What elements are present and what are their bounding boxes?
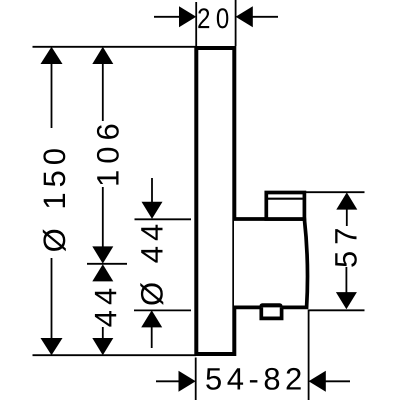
dim 20 arrow left xyxy=(179,6,196,27)
dim 54-82 arrow right xyxy=(309,371,326,392)
dim Ø44 arrow up xyxy=(141,310,162,327)
dim 106 arrow down xyxy=(92,246,113,263)
dim 20 leader right xyxy=(252,16,278,18)
dim 106 line upper xyxy=(102,63,104,121)
dim 54-82 label xyxy=(206,368,301,390)
dim 54-82 arrow left xyxy=(179,371,196,392)
bottom reference line (plate bottom extended left) xyxy=(33,354,197,356)
dim 20 label xyxy=(198,8,228,28)
dim 57 tick top xyxy=(301,191,365,193)
dim 57 line upper xyxy=(346,209,348,226)
dim Ø150 arrow down xyxy=(41,338,63,355)
dim 44 arrow down xyxy=(92,338,113,355)
valve body xyxy=(234,219,308,307)
extension line left for dim 20 xyxy=(195,2,197,46)
dim Ø44 arrow down xyxy=(142,202,163,219)
extension line below plate for dim 54-82 xyxy=(195,358,197,400)
dim 106 line lower xyxy=(102,187,104,248)
escutcheon plate (side view) xyxy=(196,48,234,354)
dim Ø150 arrow up xyxy=(41,47,63,64)
dim 57 arrow down xyxy=(336,292,357,309)
tab bump on body bottom xyxy=(260,303,283,310)
dim Ø44 label xyxy=(140,225,163,305)
dim 20 arrow right xyxy=(236,6,253,27)
dim 44 arrow up xyxy=(92,264,113,281)
dim Ø44 tick top xyxy=(135,218,192,220)
dim 106 arrow up xyxy=(92,47,113,64)
dim Ø150 line upper xyxy=(51,63,53,128)
dim Ø44 tick bottom xyxy=(134,309,191,311)
tab lower clip xyxy=(261,307,281,318)
dim 44 label xyxy=(95,289,116,327)
dim 57 arrow up xyxy=(336,192,357,209)
cartridge collar (top box) xyxy=(266,193,304,220)
dim 54-82 leader right xyxy=(325,380,350,382)
dim 44 line lower xyxy=(102,327,104,339)
dim Ø44 tail upper xyxy=(151,178,153,202)
dim 57 tick bottom xyxy=(309,309,365,311)
dim 57 line lower xyxy=(345,267,347,293)
dim Ø150 label xyxy=(43,149,66,251)
extension line right for dim 20 xyxy=(235,0,237,46)
top reference line (plate top extended left) xyxy=(33,46,197,48)
dim 57 label xyxy=(335,229,357,267)
extension line right of body for dim 54-82 xyxy=(308,310,310,400)
dim Ø150 line lower xyxy=(51,258,53,339)
dim Ø44 tail lower xyxy=(151,326,153,348)
dim 20 leader left xyxy=(154,16,180,18)
centre tick between 106 and 44 xyxy=(87,263,127,265)
dim 54-82 leader left xyxy=(156,380,179,382)
dim 106 label xyxy=(97,125,119,185)
collar inner line xyxy=(268,198,303,200)
